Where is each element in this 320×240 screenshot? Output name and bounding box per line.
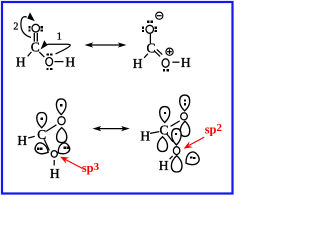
svg-text:sp2: sp2 xyxy=(205,122,223,136)
svg-text:H: H xyxy=(50,166,60,181)
svg-text:H: H xyxy=(16,54,26,69)
svg-text:2: 2 xyxy=(13,22,18,33)
svg-text:C: C xyxy=(159,122,168,137)
svg-text:1: 1 xyxy=(57,32,62,43)
svg-text:H: H xyxy=(181,55,191,70)
svg-text:H: H xyxy=(133,56,143,71)
svg-text:H: H xyxy=(65,54,75,69)
svg-text:H: H xyxy=(17,133,27,148)
svg-text:C: C xyxy=(31,39,40,54)
svg-text:C: C xyxy=(37,127,46,142)
svg-text:H: H xyxy=(140,128,150,143)
svg-text:H: H xyxy=(159,158,169,173)
svg-text:sp3: sp3 xyxy=(82,161,100,175)
